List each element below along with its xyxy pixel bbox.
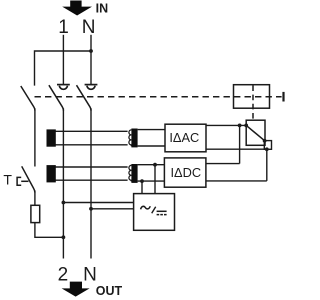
wire top horizontal N to aux (35, 51, 92, 86)
wire CT-AC to IdAC bottom (138, 145, 165, 147)
CT core DC bottom edge (47, 179, 128, 181)
converter DC solid bar (157, 210, 167, 212)
wire N top vertical (90, 35, 92, 84)
wire CT-DC to IdDC top (138, 164, 165, 166)
node tap bottom (140, 179, 144, 183)
contact fixed N (85, 85, 98, 90)
node latch input (244, 124, 248, 128)
test button actuator (17, 177, 21, 185)
OUT arrow (62, 282, 90, 297)
latch small square (264, 141, 271, 150)
wire aux mid vertical (34, 108, 36, 166)
wire IdDC out bottom (206, 180, 267, 182)
IN arrow (62, 1, 92, 16)
wire tap top vertical (154, 165, 156, 194)
CT winding AC (129, 130, 132, 146)
node test junction (62, 235, 66, 239)
svg-text:N: N (83, 265, 97, 286)
test button blade (22, 166, 35, 192)
wire blade to resistor (34, 191, 36, 206)
wire CT-DC to IdDC bottom (138, 180, 165, 182)
wire line1 mid vertical (62, 108, 64, 258)
block IdDC (164, 158, 206, 187)
CT core DC left cap (47, 165, 56, 182)
node tap top (153, 163, 157, 167)
wire junction vertical (239, 125, 241, 163)
CT core AC bottom edge (47, 144, 128, 146)
svg-text:IΔDC: IΔDC (171, 165, 202, 180)
CT core AC top edge (47, 130, 128, 132)
CT core AC right cap (131, 129, 137, 148)
wire square vertical (266, 149, 268, 181)
wire CT-AC to IdAC top (138, 129, 165, 131)
wire line1 to converter (63, 202, 133, 204)
converter DC dashed bar (157, 214, 167, 216)
solenoid U1 (234, 85, 270, 109)
svg-text:T: T (3, 171, 12, 187)
svg-text:N: N (82, 17, 96, 38)
linkage dashed vertical to latch (252, 85, 254, 120)
latch diagonal (246, 125, 264, 140)
switch aux blade (21, 86, 35, 111)
converter box (134, 194, 175, 231)
CT core DC top edge (47, 166, 128, 168)
block IdAC (165, 124, 206, 152)
test button link (21, 180, 28, 182)
node IdAC-IdDC junction (238, 124, 242, 128)
trip linkage dashed bar (35, 96, 282, 98)
node line1 converter tap (62, 201, 66, 205)
wire IdAC out top (206, 124, 247, 126)
CT core DC right cap (131, 164, 137, 183)
svg-text:IN: IN (96, 1, 109, 15)
node latch output (263, 139, 267, 143)
CT core AC left cap (47, 129, 56, 146)
contact fixed line1 (57, 85, 70, 90)
node small square junction (265, 147, 269, 151)
converter slash (152, 207, 156, 214)
node N converter tap (89, 207, 93, 211)
wire IdDC out top (206, 163, 240, 165)
wire tap bottom vertical (141, 181, 143, 194)
switch blade N (77, 85, 92, 110)
wire IdAC out bottom (206, 148, 267, 150)
wire line1 top vertical (62, 35, 64, 84)
switch blade line1 (49, 85, 64, 110)
node N-top junction (89, 49, 93, 53)
svg-text:2: 2 (58, 265, 69, 286)
resistor R test (31, 205, 40, 222)
wire N to converter (91, 208, 134, 210)
CT winding DC (129, 165, 132, 181)
svg-text:OUT: OUT (96, 284, 123, 298)
linkage handle bar (282, 92, 284, 102)
wire resistor to line1 (35, 223, 64, 238)
converter AC symbol (141, 206, 151, 209)
latch box (246, 120, 265, 145)
svg-text:IΔAC: IΔAC (169, 130, 199, 145)
wire N mid vertical (90, 108, 92, 258)
